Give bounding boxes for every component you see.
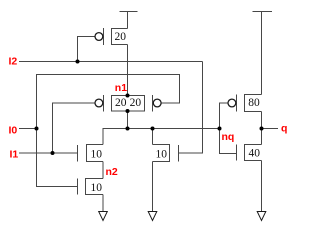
svg-text:10: 10 xyxy=(90,148,102,160)
wire q output stub xyxy=(262,128,279,130)
svg-text:I0: I0 xyxy=(9,124,18,136)
svg-text:I2: I2 xyxy=(9,56,18,68)
wire I2 net horizontal xyxy=(19,61,203,63)
svg-text:40: 40 xyxy=(249,148,261,160)
nmos 10 left body xyxy=(78,145,104,162)
pmos 20 pair-left body xyxy=(104,95,128,112)
junction I2/M1 gate xyxy=(76,60,80,64)
junction I0 node xyxy=(35,127,39,131)
ground 2 xyxy=(148,212,157,221)
wire I0 loop to M3 gate and M6 gate xyxy=(37,75,180,187)
pmos 80 body xyxy=(237,95,262,112)
pmos 80 gate bubble xyxy=(228,99,236,107)
svg-text:20: 20 xyxy=(115,97,127,109)
pmos 20 top body xyxy=(104,28,128,45)
junction nq at output gates xyxy=(218,127,222,131)
wire M1 drain to n1 xyxy=(127,45,129,96)
wire nq to output gates xyxy=(220,103,237,154)
wire I0 stub xyxy=(19,128,37,130)
nmos 10 mid body xyxy=(153,145,179,162)
pmos 20 pair-left gate bubble xyxy=(95,99,103,107)
junction I1 node xyxy=(51,151,55,155)
svg-text:I1: I1 xyxy=(10,149,19,161)
wire M5 drain to nq row xyxy=(152,129,154,145)
wire M5 source to ground xyxy=(152,162,154,212)
wire n1 pair to nq row xyxy=(127,111,129,129)
power VDD rail 1 xyxy=(120,12,138,29)
wire I1 to M2 gate xyxy=(53,103,95,153)
svg-text:10: 10 xyxy=(156,148,168,160)
wire M8 source to ground xyxy=(261,161,263,212)
wire I2 to M5 gate xyxy=(179,62,203,154)
junction pair bottom xyxy=(126,109,130,113)
ground 3 xyxy=(257,212,266,221)
junction nq at M5 leg xyxy=(151,127,155,131)
nmos 10 bottom body xyxy=(78,179,104,195)
svg-text:n1: n1 xyxy=(115,82,127,94)
junction node n1 xyxy=(126,94,130,98)
svg-text:80: 80 xyxy=(248,97,260,109)
power VDD rail 2 xyxy=(253,12,273,95)
junction q node xyxy=(260,127,264,131)
ground 1 xyxy=(99,212,108,221)
svg-text:10: 10 xyxy=(90,182,102,194)
svg-text:20: 20 xyxy=(114,31,126,43)
junction nq at pair leg xyxy=(126,127,130,131)
svg-text:q: q xyxy=(281,123,287,135)
wire I1 horizontal xyxy=(19,152,78,154)
nmos 40 body xyxy=(237,145,262,161)
wire node n2 xyxy=(102,162,104,179)
wire M6 source to ground xyxy=(102,195,104,212)
svg-text:n2: n2 xyxy=(106,166,118,178)
pmos 20 pair-right body xyxy=(128,95,153,112)
wire nq row xyxy=(103,129,220,145)
svg-text:nq: nq xyxy=(222,131,235,143)
wire M7 drain to q xyxy=(261,112,263,145)
wire I2 to M1 gate xyxy=(78,37,95,62)
svg-text:20: 20 xyxy=(130,97,142,109)
pmos 20 top gate bubble xyxy=(95,33,103,41)
pmos 20 pair-right gate bubble xyxy=(153,99,161,107)
